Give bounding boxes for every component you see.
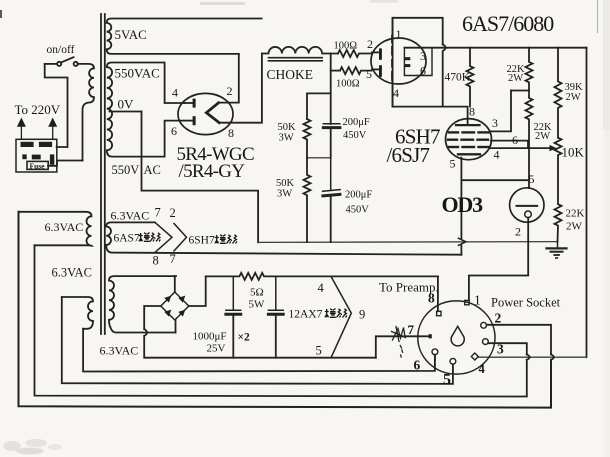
svg-text:7: 7 [408,322,415,337]
svg-text:12AX7: 12AX7 [289,309,323,321]
svg-text:5: 5 [450,157,456,171]
svg-text:7: 7 [155,206,161,220]
socket pin 7 [429,334,432,338]
6AS7 cathode stub pin3 [404,57,410,60]
wire winding top to socket pin2 route [19,212,552,408]
svg-text:8: 8 [469,105,475,119]
hop pin3 wire over pin4 line [527,354,530,359]
svg-text:200μF: 200μF [345,190,372,201]
svg-text:AC: AC [144,163,161,177]
wire switch to fuse box [45,64,68,147]
resistor 22K 2W upper [526,48,533,91]
12AX7 heater banner chevron [331,276,351,357]
wire pin6 stub [434,355,436,360]
svg-text:25V: 25V [207,343,226,355]
wire 6SH7 pin4 wiper line [490,147,553,149]
svg-text:550VAC: 550VAC [115,66,160,81]
svg-text:0V: 0V [118,97,135,112]
bridge rectifier diamond [161,292,189,320]
wire 22K chain to OD3 pin5 [528,148,530,188]
svg-text:100Ω: 100Ω [334,41,358,52]
svg-text:2: 2 [227,84,233,98]
svg-text:6.3VAC: 6.3VAC [45,220,84,234]
6SH7 grid dashes row1 [449,131,489,133]
wire bridge plus output [189,276,206,306]
wire winding bottom to socket pin3 route [35,245,527,396]
svg-text:Power Socket: Power Socket [491,296,561,310]
svg-text:22K: 22K [566,208,585,220]
resistor 22K 2W right [555,159,562,242]
svg-text:4: 4 [479,362,486,376]
5R4 plate pin4 [184,99,196,108]
svg-text:6SH7: 6SH7 [189,235,215,247]
power tube U1 6AS7 envelope [371,38,426,84]
svg-text:5: 5 [316,344,322,358]
svg-text:6: 6 [171,124,177,138]
socket pin 6 [432,349,438,355]
bridge winding 6.3VAC [109,276,176,332]
HV secondary winding 550VAC-0V-550VAC [107,63,165,157]
transformer primary winding [78,64,95,161]
regulator V3 OD3 envelope [510,188,544,222]
svg-text:5: 5 [443,372,451,389]
OD3 internal circle [525,211,532,218]
resistor 100ohm lower [340,67,372,74]
hop pin2 wire over pin4 line [551,354,554,359]
svg-text:6: 6 [512,133,518,147]
wire pin5 node down with hop over ground bus [460,180,462,238]
svg-text:3W: 3W [279,133,294,144]
arrowhead into 10K [550,145,557,151]
wire ground bus horizontal to chassis ground [258,241,557,244]
resistor 50K 3W lower [304,158,311,242]
svg-text:2: 2 [515,225,521,239]
capacitor C2 200uF 450V [323,158,341,242]
svg-text:50K: 50K [276,178,295,189]
svg-text:2W: 2W [508,73,523,84]
svg-text:5: 5 [529,172,535,186]
wire pin2 [487,325,551,355]
resistor 470K [467,48,474,107]
6SH7 plate bar [456,124,480,126]
heater winding 6.3VAC for 6AS7 6SH7 [106,222,155,252]
wire 6SH7 pin3 [490,91,511,132]
capacitor C4 1000uF [268,276,283,357]
socket pin 2 [481,322,487,328]
chassis ground symbol [547,242,567,258]
svg-text:Fuse: Fuse [30,162,46,171]
svg-text:/6SJ7: /6SJ7 [387,143,430,167]
svg-text:2W: 2W [566,221,583,233]
wire to 100ohm lower [331,70,340,72]
wire 5VAC bottom to 5R4 pin2 [220,54,239,103]
B+ output rail [404,47,586,49]
wire hop to heater line [460,245,462,254]
potentiometer 10K [555,138,562,159]
wire 5R4 pin8 to choke input [219,54,262,123]
capacitor C3 1000uF [226,276,241,357]
svg-text:5Ω: 5Ω [250,287,264,299]
svg-text:To 220V: To 220V [15,102,61,117]
svg-text:6: 6 [414,358,421,373]
socket pin 4 [471,353,478,360]
6AS7 grid dashed line [391,36,393,80]
OD3 internal bar [517,205,538,207]
svg-text:6.3VAC: 6.3VAC [52,266,92,280]
resistor 39K 2W [555,48,562,138]
svg-text:5: 5 [366,67,372,81]
To 220V arrows [17,118,57,140]
preamp heater winding 6.3VAC left [19,212,92,246]
svg-text:8: 8 [428,291,435,306]
wire bridge minus output with hop [144,306,161,329]
svg-text:2: 2 [367,37,373,51]
socket pin 1 [465,300,469,304]
DC plus rail with 5 ohm [206,273,438,280]
svg-text:3: 3 [497,342,504,357]
6SH7 grid dashes row2 [448,138,488,140]
svg-text:on/off: on/off [47,44,75,56]
svg-text:3: 3 [420,49,426,63]
bridge diode arrows [164,296,185,317]
svg-text:100Ω: 100Ω [336,79,360,90]
svg-text:200μF: 200μF [343,117,370,128]
wire B+ to bleeder 50K chain [307,93,331,119]
node 22K junction to 6SH7 pin3 [511,90,529,92]
resistor 100ohm upper [338,50,372,57]
svg-text:3W: 3W [277,189,292,200]
node 0V tap [110,111,142,113]
wire to socket pin6 [83,329,435,372]
svg-text:6.3VAC: 6.3VAC [100,344,139,358]
heater banner chevron 6AS7 [155,222,172,252]
6SH7 cathode bar [458,153,480,155]
choke L1 [262,47,338,61]
on/off switch S1 [45,57,78,66]
svg-text:1: 1 [396,27,402,41]
svg-text:6AS7/6080: 6AS7/6080 [462,11,554,36]
wire bridge bottom input [175,320,177,333]
svg-text:CHOKE: CHOKE [267,67,314,82]
6AS7 plate pin5 [372,65,382,77]
wire To Preamp down to socket pin8 [437,276,439,311]
wire bridge top input [174,276,176,292]
hop grid box over cathode rail [443,44,446,106]
svg-text:4: 4 [318,281,325,295]
pentode U2 6SH7 envelope [446,119,492,160]
5R4 plate pin6 [184,116,196,125]
6AS7 grid box wiring pins 1 and 4 [393,18,443,107]
heater banner chevron 2 [174,224,187,252]
fuse F1 [27,161,48,169]
svg-text:10K: 10K [562,145,585,160]
6AS7 plate pin2 [372,48,382,59]
svg-text:6.3VAC: 6.3VAC [111,209,150,223]
svg-text:4: 4 [393,86,399,100]
wire 6SH7 pin5 [461,158,529,181]
svg-text:×2: ×2 [238,332,251,344]
6AS7 cathode stub pin6 [404,64,410,67]
node B+ junction [330,54,332,125]
svg-text:4: 4 [172,86,178,100]
svg-text:7: 7 [170,252,176,266]
svg-text:4: 4 [494,148,500,162]
socket keyway [451,326,464,345]
wire grid node to 6SH7 plate [393,107,468,126]
svg-text:/5R4-GY: /5R4-GY [179,161,246,182]
wire to socket pin5 [62,297,453,384]
svg-text:1000μF: 1000μF [193,331,227,343]
6AS7 cathode box [404,48,432,76]
capacitor C1 200uF 450V [323,124,340,158]
svg-text:5W: 5W [249,299,266,311]
svg-text:470K: 470K [445,72,471,84]
heater winding 6.3VAC lower left [62,297,93,329]
right rail down to socket pin4 [586,48,588,358]
svg-text:8: 8 [228,126,234,140]
6AS7 grid stem [391,18,393,107]
socket pin 8 [437,311,441,315]
wire bottom rail up to socket pin7 [376,336,429,357]
svg-text:OD3: OD3 [442,192,484,217]
hop mark [458,238,466,245]
fuse box / mains inlet [16,139,57,172]
wire 6SH7 pin6 [491,141,528,149]
wire 550VAC bottom to 5R4 pin6 [165,121,184,157]
svg-text:1: 1 [474,293,481,308]
svg-text:2W: 2W [535,131,550,142]
hop bridge minus over AC input [144,329,147,336]
svg-text:450V: 450V [343,130,367,141]
resistor 22K 2W lower [526,91,533,149]
svg-text:50K: 50K [278,122,297,133]
transformer T1 core [101,14,105,334]
6SH7 grid dashes row3 [449,146,489,148]
5VAC winding [107,19,262,54]
resistor 50K 3W upper [304,119,311,158]
svg-text:8: 8 [153,254,159,268]
wire 0V to ground bus [142,112,259,243]
socket pin 5 [450,358,456,364]
svg-text:2: 2 [170,206,176,220]
svg-text:5VAC: 5VAC [115,27,147,42]
socket pin 3 [483,339,489,345]
bottom rail DC minus [144,336,376,358]
wire junction between filter stages [307,157,331,159]
wire 550VAC top to 5R4 pin4 [165,63,184,104]
svg-text:550V: 550V [112,163,140,177]
correction scribble on pin7 wire [392,327,406,358]
svg-text:9: 9 [359,308,365,322]
wire pin3 [488,343,527,354]
octal power socket [418,301,495,374]
wire right rail to socket pin4 [479,356,587,358]
5R4 filament [206,103,219,123]
svg-text:2W: 2W [566,92,581,103]
svg-text:6AS7: 6AS7 [114,233,140,245]
wire fuse to primary riser [48,161,83,166]
svg-text:2: 2 [495,311,502,326]
rectifier V1 5R4 envelope [178,93,233,134]
svg-text:3: 3 [492,116,498,130]
heater return line to cathode node [112,253,461,255]
wire OD3 pin2 down [469,218,528,301]
svg-text:6: 6 [420,64,426,78]
svg-text:450V: 450V [346,205,370,216]
